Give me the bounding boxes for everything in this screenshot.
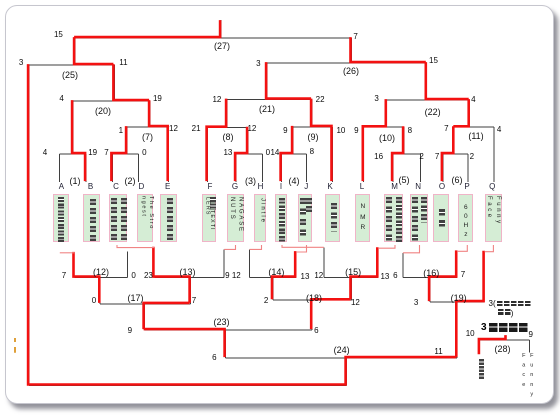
score value 19 at (157.4,98.7) [149,94,165,103]
score value 12 at (318.8,275.5) [311,271,327,280]
red path C wins (17) [144,303,190,329]
wire (20)->(25) [113,65,115,101]
match (28) third-place bracket [480,340,530,353]
match (10) bracket [364,127,404,182]
score value 6 at (395.4,275.5) [387,271,403,280]
match (13) bracket [154,249,224,277]
match (8) bracket [208,128,249,182]
match (6) bracket O-P [443,154,468,182]
wire (13)->(17) [190,278,192,304]
wire (17)->(23) [144,304,146,330]
score value 19 at (92.7,152.8) [85,148,101,157]
wire (21)->(26) [266,63,268,100]
team box H: Jintle [254,194,266,242]
drop jog G [224,245,235,249]
decoration orange mark [14,338,16,343]
score value 12 at (216.9,99.4) [209,95,225,104]
red path J wins (14) [272,251,295,299]
score value 9 at (530.7,334.3) [523,330,539,339]
match (7) bracket [127,127,169,182]
wire (2)->(7) [126,127,128,154]
node label (19) [443,293,475,303]
red path B wins (1) [72,100,85,181]
node label (14) [260,267,292,277]
red path C wins (2) [111,126,126,181]
drop jog I [282,245,324,247]
score value 13 at (384.9,276) [377,272,393,281]
match (3) bracket G-H [236,154,263,182]
score value 23 at (148.4,275.5) [140,271,156,280]
red path M wins (5) [392,126,403,181]
drop jog N [403,245,420,253]
score value 11 at (123.4,62.9) [115,58,131,67]
red path E wins (20) [113,64,149,100]
wire (8)->(21) [226,100,228,128]
score value 12 at (236.3,275.5) [228,271,244,280]
score value 8 at (409.9,130.4) [402,126,418,135]
team box Q: Funny Face [485,194,503,242]
node label (5) [388,175,420,185]
match (11) bracket [454,127,494,182]
node label (17) [120,293,152,303]
wire (1)->(20) [72,101,74,154]
wire (26)->(27) [350,38,352,63]
team box I: yanfutazu [275,194,287,242]
wire champion [220,20,222,38]
score value 3 at (21.1,62.9) [13,58,29,67]
match (23) bracket [145,329,313,331]
node label (18) [298,293,330,303]
match (18) bracket [273,299,352,301]
wire (6)->(11) [453,127,455,154]
drop jog H [250,245,262,249]
wire (11)->(22) [469,100,471,127]
score value 7 at (463,274.8) [455,270,471,279]
match (25) bracket [29,64,114,66]
wire (23)->(24) [225,330,227,358]
score value 6 at (214.4,357.9) [206,353,222,362]
team box F: TEXTILERS [202,194,216,242]
score value 0 at (133.6,275.5) [126,271,142,280]
score value 7 at (106.5,152.8) [99,148,115,157]
drop jog P [457,245,467,251]
score value 2 at (421.6,156.6) [414,152,430,161]
node label (26) [335,66,367,76]
score value 4 at (499.1,129.4) [491,125,507,134]
node label (12) [85,267,117,277]
wire (18)->(23) [311,300,313,330]
match (12) bracket [74,251,127,277]
score value 2 at (471.9,156.6) [464,152,480,161]
match (20) bracket [73,100,150,102]
team box D: The Strongest [137,194,153,242]
node label (13) [172,267,204,277]
red path G wins (3) [235,127,247,181]
team box O: rakujin [433,194,449,242]
score value 21 at (196.1,128.8) [188,124,204,133]
red path E wins (25) [74,37,113,64]
red path Q wins (24) [28,64,456,384]
wire (25)->(27) [74,38,76,65]
match (9) bracket [293,127,332,182]
score value 3 at (376.6,98.9) [369,94,385,103]
red path O wins (6) [442,126,453,181]
node label (20) [87,106,119,116]
match (17) bracket [100,303,190,305]
red path O wins (26) [351,37,426,62]
red path K wins (21) [266,62,311,99]
score value 9 at (356.4,130.4) [348,126,364,135]
score value 7 at (64,275.5) [56,271,72,280]
team box G: NAGASE NUTS [227,194,244,242]
red path E wins (27) champion [74,20,220,37]
team box K: medaka [325,194,340,242]
node label (23) [206,317,238,327]
match (4) bracket I-J [282,154,307,182]
match (14) bracket [250,249,297,277]
wire (5)->(10) [403,127,405,154]
node label (15) [337,267,369,277]
team box E: kakkozu [160,194,176,242]
score value 11 at (438.5,351.4) [431,347,447,356]
score value 6 at (316.4,330.9) [308,326,324,335]
node label (27) [206,41,238,51]
score value 10 at (470.2,333.8) [462,329,478,338]
red path P wins (16) [429,250,456,301]
wire (3)->(8) [247,128,249,154]
node label (7) [132,132,164,142]
red path O wins (22) [426,62,469,99]
score value 0 at (94,300.9) [86,296,102,305]
team medaka (28 left) [479,359,485,380]
team box C: longbar-villians [109,194,128,242]
team box M: hangzhou-west-lakers [384,194,403,242]
wire (24)->(25) long left [28,65,30,385]
score value 16 at (378.6,156.6) [371,152,387,161]
score value 14 at (274.9,152.2) [267,148,283,157]
node label (4) [278,176,310,186]
red path C wins (13) [153,247,189,303]
wire (12)->(17) [99,278,101,304]
node label (16) [415,268,447,278]
red path F wins (8) [207,99,227,182]
red path A wins (12) [74,252,100,303]
red path O wins (11) [453,99,468,126]
title 3rd-place match [481,322,487,333]
score value 9 at (285.4,130.2) [277,126,293,135]
team box B: pioneer [83,194,99,242]
score value 15 at (58.4,34.8) [50,30,66,39]
team box N: team-mentaiko [410,194,428,242]
score value 15 at (433.5,60.5) [426,56,442,65]
red path Q wins (19) [456,251,483,357]
team Funny Face (28 right) [528,353,535,401]
score value 1 at (120.9,130.2) [113,126,129,135]
wire (9)->(21) [311,100,313,127]
score value 13 at (305,276) [297,272,313,281]
team box J: minami-no-hafuzu [298,194,312,242]
team box A: team-wonton [53,194,69,242]
red path C wins (23) [144,329,225,357]
score value 4 at (61.6,98.7) [54,94,70,103]
match (19) bracket [430,301,485,303]
red path L wins (10) [363,99,386,181]
score value 7 at (355.6,36) [348,32,364,41]
drop jog Q [485,245,494,252]
match (27) final bracket [75,37,351,39]
match (15) bracket [324,247,378,277]
match (21) bracket [227,99,312,101]
node label (11) [460,131,492,141]
node label (22) [417,107,449,117]
node label (25) [54,70,86,80]
wire (14)->(18) [272,278,274,301]
wire (7)->(20) [149,101,151,127]
node label (1) [59,176,91,186]
node label (10) [371,133,403,143]
red path M wins (18) [311,299,350,329]
drop jog C [117,245,154,248]
score value 12 at (355.4,302.1) [347,298,363,307]
node label (3) [235,176,267,186]
score value 9 at (129.9,330.9) [122,326,138,335]
node label (2) [114,176,146,186]
score value 4 at (473.4,99.3) [465,95,481,104]
wire (24) out [29,358,347,385]
node label (28) [487,344,519,354]
match (16) bracket [403,253,457,278]
score value 12 at (251.9,128.2) [244,124,260,133]
drop jog A [60,252,75,254]
node label (24) [326,345,358,355]
red path I wins (4) [281,126,293,181]
score value 3 at (258.4,63.9) [250,59,266,68]
score value 8 at (311.9,151.9) [304,147,320,156]
score value 9 at (227.4,275.5) [219,271,235,280]
score value 22 at (320.1,99.2) [312,95,328,104]
score Q janken note [489,299,496,308]
drop jog J [296,245,306,252]
match (1) bracket A-B [59,154,86,182]
score value 12 at (173.5,128.8) [166,124,182,133]
red path K wins (9) [311,99,331,182]
red path K wins (28) [479,335,506,354]
red path M wins (15) [351,247,378,299]
team box P: 60Hz [458,194,473,242]
score value 0 at (267.9,152.2) [260,148,276,157]
match (24) bracket [226,357,458,359]
wire (10)->(22) [386,100,388,127]
score value 7 at (194,300.9) [186,296,202,305]
wire (22)->(26) [426,63,428,100]
team box L: NMR [355,194,370,242]
score value 13 at (227.9,152.2) [220,148,236,157]
score value 0 at (144.3,152.8) [136,148,152,157]
score value 4 at (45,152.8) [37,148,53,157]
node label (9) [297,132,329,142]
score value 7 at (437.1,156.6) [429,152,445,161]
wire (4)->(9) [292,127,294,154]
match (26) bracket [267,62,427,64]
node label (6) [441,175,473,185]
match (5) bracket M-N [393,154,421,182]
wire (15)->(18) [350,278,352,301]
node label (21) [251,104,283,114]
score value 3 at (416.1,302.1) [408,298,424,307]
score value 2 at (266.1,300.9) [258,296,274,305]
score value 7 at (446.3,128.9) [438,124,454,133]
red path E wins (7) [149,100,168,181]
node label (8) [212,132,244,142]
drop jog M [378,245,395,248]
match (2) bracket C-D [112,154,138,182]
wire (16)->(19) [429,278,431,303]
score value 10 at (340.9,130.8) [333,126,349,135]
match (22) bracket [387,99,470,101]
wire (19)->(24) [456,302,458,358]
